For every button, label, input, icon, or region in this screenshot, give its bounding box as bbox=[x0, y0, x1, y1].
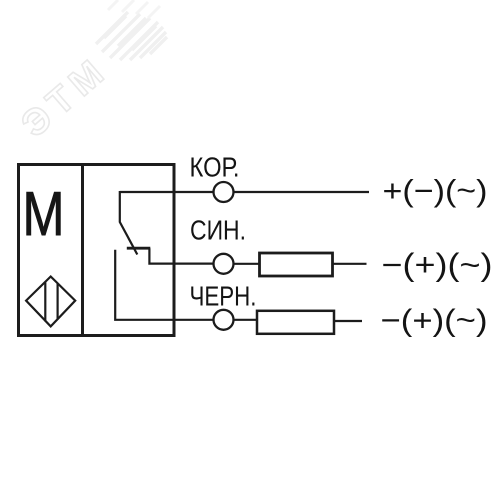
svg-text:M: M bbox=[23, 180, 65, 249]
svg-text:ЧЕРН.: ЧЕРН. bbox=[190, 281, 257, 312]
terminal ЧЕРН bbox=[214, 310, 234, 330]
resistor R2 (load) bbox=[257, 311, 334, 334]
wire from terminal ЧЕРН to resistor R2 bbox=[234, 319, 258, 321]
wire ЧЕРН (black) from contact to terminal bbox=[115, 250, 213, 320]
svg-text:−(+)(~): −(+)(~) bbox=[381, 304, 488, 338]
terminal СИН bbox=[214, 254, 234, 274]
sensor body divider bbox=[81, 164, 84, 336]
switch fixed contact bar bbox=[127, 247, 151, 250]
sensor body bbox=[19, 165, 175, 336]
svg-text:+(−)(~): +(−)(~) bbox=[383, 174, 488, 208]
svg-text:КОР.: КОР. bbox=[190, 151, 240, 182]
wire from resistor R1 to output label bbox=[333, 263, 367, 265]
wire from terminal КОР to supply label bbox=[234, 191, 370, 193]
wire from resistor R2 to output label bbox=[334, 320, 362, 322]
svg-text:−(+)(~): −(+)(~) bbox=[382, 246, 493, 282]
terminal КОР bbox=[214, 182, 234, 202]
inductive sensor symbol (diamond) bbox=[26, 277, 75, 327]
wire СИН (blue) from contact to terminal bbox=[149, 248, 213, 263]
watermark ЭТМ logo bbox=[13, 0, 167, 145]
wire from terminal СИН to resistor R1 bbox=[234, 263, 260, 265]
svg-text:ЭТМ: ЭТМ bbox=[13, 48, 116, 145]
wire КОР (brown) from switch to terminal bbox=[120, 191, 214, 193]
resistor R1 (load) bbox=[260, 253, 333, 276]
svg-text:СИН.: СИН. bbox=[190, 214, 246, 245]
switch lever bbox=[120, 191, 138, 255]
